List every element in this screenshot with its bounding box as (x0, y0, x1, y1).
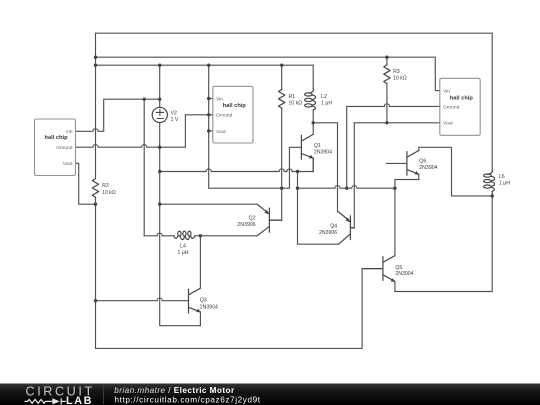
svg-text:Q1: Q1 (314, 143, 321, 149)
transistor Q3 (189, 288, 201, 313)
svg-text:Q6: Q6 (419, 159, 426, 165)
svg-text:10 kΩ: 10 kΩ (289, 100, 303, 106)
node mid hall pins (207, 97, 210, 100)
svg-text:Q4: Q4 (330, 224, 337, 230)
wire L2 bottom to Q4 emitter (313, 123, 337, 212)
wire y57 rail to right hall Vin (96, 57, 440, 90)
node y99 dots (143, 97, 146, 100)
wire V+ vertical (95, 33, 97, 178)
svg-text:hall chip: hall chip (450, 96, 474, 102)
svg-text:10 kΩ: 10 kΩ (393, 76, 407, 82)
wire R3 bottom to right hall Vout (354, 122, 440, 124)
wire hall U1 Vout (76, 163, 96, 204)
logo squiggle resistor (25, 398, 66, 404)
svg-text:L2: L2 (321, 94, 327, 100)
svg-text:LAB: LAB (66, 395, 93, 405)
svg-text:L6: L6 (499, 174, 505, 180)
wire R1 bottom / Q2 base vertical (269, 108, 281, 220)
wire Q4 base vertical (350, 123, 354, 228)
svg-text:10 kΩ: 10 kΩ (102, 190, 116, 196)
wire R2 bottom lead (95, 197, 97, 204)
transistor Q1 (301, 134, 313, 159)
svg-text:Ground: Ground (216, 113, 233, 119)
wire V2 top lead (159, 65, 161, 107)
node Q3 base tap (94, 299, 97, 302)
inductor L2 (305, 89, 316, 110)
transistor Q6 (407, 151, 419, 176)
svg-text:2N3906: 2N3906 (237, 222, 255, 228)
Q4 arrow (345, 217, 349, 222)
svg-text:brian.mhatre / Electric Motor: brian.mhatre / Electric Motor (114, 386, 235, 395)
node L6 bottom (491, 194, 494, 197)
transistor Q4 (339, 212, 355, 244)
wire hall U1 Vin with hop (76, 99, 160, 131)
inductor L4 (174, 231, 195, 239)
Q2 arrow (264, 210, 268, 215)
svg-text:2N3906: 2N3906 (319, 230, 337, 236)
wire ground rail y147 with hops (76, 115, 213, 147)
wire V+ top rail (96, 33, 493, 170)
wire L2 top lead (312, 65, 314, 89)
wire Q3 emitter down (199, 312, 201, 326)
wire x144 vertical to L4 (143, 99, 145, 236)
wire Q3 base with hop (96, 298, 189, 301)
svg-text:2N3904: 2N3904 (395, 271, 413, 277)
wire mid hall vertical and y188 left (209, 65, 282, 188)
svg-text:L4: L4 (180, 244, 186, 250)
wire Vout net bottom loop to Q5 base (96, 204, 383, 348)
wire Q1 emitter net down to Q4 collector (298, 172, 339, 245)
svg-text:R2: R2 (102, 183, 109, 189)
wire ground vertical to Q3 emitter (160, 147, 201, 326)
svg-text:hall chip: hall chip (45, 135, 69, 141)
wire ground rail y171.5 with hops (160, 158, 314, 171)
svg-text:V2: V2 (171, 110, 177, 116)
Q5 arrow (391, 278, 396, 282)
wire L4 to Q2 collector (195, 235, 257, 237)
Q3 arrow (196, 309, 201, 313)
wire V2 bottom lead (159, 123, 161, 148)
transistor Q2 (257, 204, 282, 236)
node V+ rail dots (94, 56, 97, 59)
wire R3 bottom lead (386, 84, 388, 123)
wire Q5 collector vertical (394, 188, 396, 256)
wire Q6 collector to L6 bottom (419, 147, 492, 196)
wire L2 bottom lead (312, 110, 314, 123)
wire Q1 collector (312, 123, 314, 135)
node ground junctions (158, 146, 161, 149)
emitter arrows (196, 155, 419, 313)
svg-text:Vin: Vin (216, 97, 223, 103)
inductor L6 (484, 170, 495, 196)
hall chip U2 box (213, 86, 253, 143)
wire Q5 emitter to L6 bottom (395, 196, 492, 292)
wire R3 top lead (386, 57, 388, 65)
svg-text:Vin: Vin (443, 89, 450, 95)
logo diode bar (61, 398, 66, 404)
node L2 bottom / R3 bottom (312, 121, 315, 124)
svg-text:Ground: Ground (443, 104, 460, 110)
voltage source V2 (152, 107, 167, 122)
wire Q1 base (282, 147, 302, 188)
svg-text:1 V: 1 V (171, 117, 179, 123)
wire R1 top lead (281, 65, 283, 89)
wire Q6 emitter down (395, 174, 419, 188)
svg-text:Vout: Vout (63, 161, 73, 167)
svg-text:Vout: Vout (216, 129, 226, 135)
wire right hall Ground with hop (347, 104, 440, 188)
transistor Q5 (362, 256, 395, 282)
logo diode triangle (52, 398, 59, 404)
svg-text:2N3904: 2N3904 (200, 304, 218, 310)
svg-text:R1: R1 (289, 94, 296, 100)
svg-text:Q2: Q2 (249, 215, 256, 221)
svg-text:hall chip: hall chip (223, 103, 247, 109)
wire Q6 base stub (386, 162, 407, 164)
svg-text:1 μH: 1 μH (499, 181, 510, 187)
svg-text:R3: R3 (393, 69, 400, 75)
footer divider (103, 386, 105, 405)
svg-text:Ground: Ground (56, 145, 73, 151)
node L4 branch (199, 234, 202, 237)
hall chip U3 box (440, 78, 480, 135)
svg-text:2N3904: 2N3904 (314, 150, 332, 156)
resistor R2 (92, 179, 98, 198)
wire y65 rail (96, 64, 314, 66)
wire mid hall pin stubs (209, 99, 213, 131)
svg-text:http://circuitlab.com/cpaz6z7j: http://circuitlab.com/cpaz6z7j2yd9t (115, 395, 261, 404)
resistor R3 (384, 65, 390, 84)
svg-text:Vout: Vout (443, 121, 453, 127)
wire Q3 collector vertical (199, 236, 201, 288)
hall chip U1 box (35, 78, 481, 175)
wire ground rail y188 right with hops (298, 186, 395, 189)
svg-text:1 μH: 1 μH (177, 250, 188, 256)
wire Q1 emitter to rail (312, 158, 314, 171)
Q1 arrow (309, 155, 314, 159)
Q6 arrow (415, 171, 420, 175)
svg-text:1 μH: 1 μH (321, 100, 332, 106)
svg-text:2N3904: 2N3904 (419, 165, 437, 171)
node y204 dots (94, 203, 97, 206)
svg-text:Vin: Vin (66, 129, 73, 135)
resistor R1 (279, 90, 285, 109)
wire Q2 emitter line (160, 203, 257, 205)
svg-text:Q3: Q3 (200, 298, 207, 304)
wire L4 hop (144, 233, 174, 236)
